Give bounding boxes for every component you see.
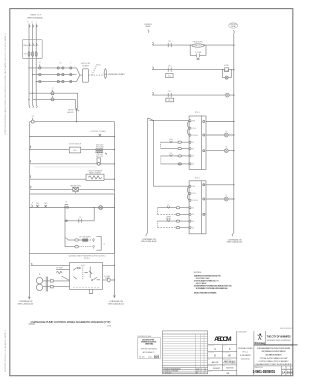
svg-text:OL: OL (60, 63, 62, 65)
svg-text:No. 125: No. 125 (139, 356, 144, 358)
svg-text:DWG 1-0601-E-002: DWG 1-0601-E-002 (108, 304, 123, 306)
svg-text:PL: PL (225, 131, 227, 133)
svg-text:CT: CT (52, 95, 54, 97)
svg-text:2019: 2019 (196, 371, 200, 373)
svg-text:(INTR): (INTR) (166, 219, 171, 221)
svg-text:RTU-1: RTU-1 (195, 112, 200, 114)
svg-text:232647: 232647 (213, 368, 221, 370)
svg-text:COM+: COM+ (192, 193, 196, 195)
svg-text:3PH MODEL3 PUMP1: 3PH MODEL3 PUMP1 (108, 74, 125, 76)
svg-text:R.ENGINEER: R.ENGINEER (240, 355, 251, 357)
svg-text:O1: O1 (203, 199, 205, 201)
svg-text:DI4: DI4 (192, 227, 194, 229)
svg-text:SUBMITTED BY: SUBMITTED BY (223, 358, 232, 360)
svg-text:HELD CABLE.: HELD CABLE. (196, 282, 207, 285)
svg-text:METER: METER (68, 109, 74, 111)
svg-text:1A: 1A (282, 371, 285, 375)
svg-text:DOOR SWITCH: DOOR SWITCH (69, 144, 82, 146)
svg-text:1 ISSUED FOR TENDER: 1 ISSUED FOR TENDER (163, 371, 179, 373)
svg-text:MTR: MTR (203, 214, 206, 216)
svg-text:RTU-2: RTU-2 (195, 177, 200, 179)
svg-text:B: B (32, 22, 33, 24)
svg-text:CONTROL PANEL (PCP) SCHEMATIC: CONTROL PANEL (PCP) SCHEMATIC (259, 360, 290, 363)
svg-text:THERMOSTAT: THERMOSTAT (70, 184, 81, 187)
svg-text:AUTOMATION UPGRADES: AUTOMATION UPGRADES (266, 353, 283, 356)
svg-text:O1: O1 (203, 135, 205, 137)
svg-text:PLOTTED: 2019-09-13 10:22 AM B: PLOTTED: 2019-09-13 10:22 AM BY: SMITH, … (4, 330, 7, 372)
svg-text:DIAGRAM NEWPCC AND SELKIRK AVE: DIAGRAM NEWPCC AND SELKIRK AVENUE (256, 363, 293, 366)
svg-text:10601-DE05001: 10601-DE05001 (280, 328, 292, 330)
svg-text:DI2: DI2 (192, 148, 194, 150)
svg-text:PROJECT No.: PROJECT No. (208, 365, 216, 367)
svg-text:OF: OF (287, 368, 289, 370)
svg-text:AECOM: AECOM (212, 361, 219, 364)
svg-text:WET WEATHER FLOW AUTOMATION: WET WEATHER FLOW AUTOMATION (262, 350, 287, 353)
svg-text:600V/120V: 600V/120V (96, 145, 103, 147)
svg-text:60559520: 60559520 (226, 368, 234, 370)
svg-text:TD-1: TD-1 (168, 76, 171, 78)
svg-text:SEC 120V: SEC 120V (96, 156, 103, 158)
svg-text:CB-2: CB-2 (44, 203, 47, 205)
svg-text:P TONE: P TONE (224, 70, 229, 72)
svg-text:COM DIG: COM DIG (192, 200, 198, 202)
svg-text:HWT-1: HWT-1 (96, 64, 101, 66)
svg-text:DWG 1-0601-E-002: DWG 1-0601-E-002 (18, 304, 33, 306)
svg-text:ORIGINAL SIGNED: ORIGINAL SIGNED (238, 347, 254, 350)
svg-text:A1: A1 (290, 371, 294, 375)
svg-text:DI1: DI1 (192, 207, 194, 209)
svg-text:CHECKED: CHECKED (208, 352, 214, 354)
svg-text:DI2: DI2 (192, 214, 194, 216)
svg-text:CR-1: CR-1 (168, 66, 172, 68)
svg-text:CONTROL: CONTROL (144, 24, 152, 26)
svg-text:PL: PL (225, 147, 227, 149)
svg-text:BY C.J.: BY C.J. (242, 352, 248, 354)
svg-text:COM+: COM+ (192, 128, 196, 130)
svg-text:DWG 1-0601-E-002: DWG 1-0601-E-002 (227, 242, 242, 244)
svg-text:PL: PL (225, 195, 227, 197)
svg-text:(REFER TO DWG 1-0601-E-001): (REFER TO DWG 1-0601-E-001) (27, 17, 43, 19)
svg-text:SHT: SHT (283, 368, 286, 370)
svg-text:DI1: DI1 (192, 142, 194, 144)
svg-text:DI3: DI3 (192, 156, 194, 158)
svg-text:RL: RL (203, 185, 205, 187)
svg-text:1-0601-DE05001: 1-0601-DE05001 (253, 369, 276, 375)
svg-text:CT: CT (52, 88, 54, 90)
svg-text:THE CITY OF WINNIPEG: THE CITY OF WINNIPEG (267, 335, 291, 339)
svg-text:CB: CB (32, 116, 34, 118)
svg-text:PRI 600V: PRI 600V (97, 154, 103, 156)
svg-text:LSL: LSL (169, 153, 172, 155)
svg-text:DWG 1-0601-E-002: DWG 1-0601-E-002 (141, 241, 156, 243)
svg-text:REV: REV (291, 368, 294, 370)
svg-text:MCP: MCP (24, 54, 27, 56)
svg-text:BE TERMINATED TO SPRINGTALL UN: BE TERMINATED TO SPRINGTALL UNIT LARKEAS… (196, 287, 229, 290)
svg-text:TD-1: TD-1 (168, 91, 172, 93)
svg-text:COM DIG: COM DIG (192, 135, 198, 137)
svg-text:NOTE 1: NOTE 1 (84, 258, 90, 260)
svg-text:CONTROL POWER: CONTROL POWER (90, 131, 106, 133)
svg-text:T: T (70, 63, 71, 65)
svg-text:Q:\WPG\60559520\900-CAD\910-DW: Q:\WPG\60559520\900-CAD\910-DWG\1-0601-D… (4, 33, 7, 135)
svg-text:4. RELAY CONTACTS AND SHOWN AV: 4. RELAY CONTACTS AND SHOWN AV PAC (194, 292, 218, 295)
svg-text:2019: 2019 (196, 368, 200, 370)
svg-text:CONTROL: CONTROL (229, 24, 237, 26)
svg-text:AECOM: AECOM (214, 336, 232, 343)
svg-text:PANEL PCP: PANEL PCP (30, 14, 42, 17)
svg-text:NORTH END WATER POLLUTION CONT: NORTH END WATER POLLUTION CONTROL CENTRE (257, 347, 291, 350)
svg-text:NOTES:: NOTES: (194, 272, 202, 274)
svg-text:0 ISSUED: 0 ISSUED (163, 373, 172, 375)
svg-text:TD-2: TD-2 (168, 100, 171, 102)
svg-text:H: H (32, 203, 33, 205)
svg-text:2019-09-06: 2019-09-06 (241, 358, 250, 360)
svg-text:O2: O2 (203, 150, 205, 152)
svg-text:DESIGNED: DESIGNED (208, 345, 214, 347)
svg-text:MANITOBA: MANITOBA (145, 342, 154, 345)
svg-text:TYPICAL DUPLEX MANHOLE PUMP: TYPICAL DUPLEX MANHOLE PUMP (260, 357, 289, 360)
svg-text:1 MANHOLE PUMP CONTROL PANEL: 1 MANHOLE PUMP CONTROL PANEL SCHEMATIC D… (30, 320, 110, 324)
svg-text:DI3: DI3 (192, 221, 194, 223)
svg-text:TS-1: TS-1 (168, 41, 172, 43)
svg-text:PUMP: PUMP (105, 278, 109, 280)
svg-text:CB-1: CB-1 (36, 203, 39, 205)
svg-text:IT COMM: IT COMM (195, 52, 202, 54)
svg-text:RL: RL (203, 120, 205, 122)
svg-text:C: C (36, 22, 37, 24)
svg-text:DI4: DI4 (192, 164, 194, 166)
svg-text:2021: 2021 (154, 357, 158, 359)
